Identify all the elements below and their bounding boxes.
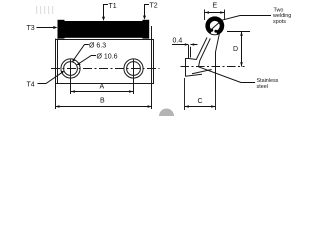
right hole xyxy=(127,62,141,76)
bracket strap back edge xyxy=(199,39,211,67)
left hole boss xyxy=(61,59,80,78)
svg-text:T4: T4 xyxy=(27,82,35,89)
right hole boss xyxy=(124,59,143,78)
stainless steel label xyxy=(199,67,256,83)
svg-text:A: A xyxy=(100,84,105,91)
dimension D xyxy=(227,31,250,33)
left hole xyxy=(64,62,78,76)
svg-text:spots: spots xyxy=(273,19,286,25)
watermark arc xyxy=(159,109,174,117)
bracket plate left edge xyxy=(186,45,189,76)
bracket plate right edge xyxy=(190,47,192,58)
bracket bottom fold xyxy=(192,70,212,74)
dimension A xyxy=(71,91,134,93)
bracket bottom edge xyxy=(185,74,202,76)
hole centerline vertical right / A extension xyxy=(133,60,135,95)
svg-text:D: D xyxy=(233,46,238,53)
svg-text:T3: T3 xyxy=(27,25,35,32)
label T4 xyxy=(38,73,62,84)
dimension B xyxy=(56,106,152,108)
inner strap line xyxy=(208,22,219,32)
dia 10.6 label xyxy=(79,56,96,64)
svg-text:0.4: 0.4 xyxy=(173,38,183,45)
svg-text:Ø 10.6: Ø 10.6 xyxy=(97,54,118,61)
bracket strap front edge xyxy=(196,38,207,60)
svg-text:T2: T2 xyxy=(150,3,158,10)
dimension E xyxy=(205,10,225,21)
svg-text:B: B xyxy=(100,98,105,105)
label T2 xyxy=(145,5,150,17)
bracket front view outline xyxy=(55,26,154,109)
dia 6.3 label xyxy=(74,45,89,61)
watermark bars xyxy=(36,6,53,14)
bracket right edge xyxy=(216,33,220,90)
svg-text:T1: T1 xyxy=(109,3,117,10)
end view centerline xyxy=(181,66,245,68)
label T1 xyxy=(104,5,109,18)
svg-text:C: C xyxy=(198,98,203,105)
bracket side view xyxy=(185,33,219,90)
bracket ledge xyxy=(189,59,197,60)
hole centerline vertical left / A extension xyxy=(70,60,72,95)
fuse body (side view black bar) xyxy=(58,20,150,39)
dimension C xyxy=(185,78,216,110)
label T3 xyxy=(37,27,55,29)
end view body ring xyxy=(206,17,224,35)
two welding spots label xyxy=(222,16,271,21)
svg-text:steel: steel xyxy=(257,84,268,90)
welding spots xyxy=(210,29,213,32)
hole centerline horizontal xyxy=(51,68,160,70)
dimension 0.4 xyxy=(172,44,189,46)
svg-text:Ø 6.3: Ø 6.3 xyxy=(89,43,106,50)
svg-text:E: E xyxy=(213,2,218,9)
